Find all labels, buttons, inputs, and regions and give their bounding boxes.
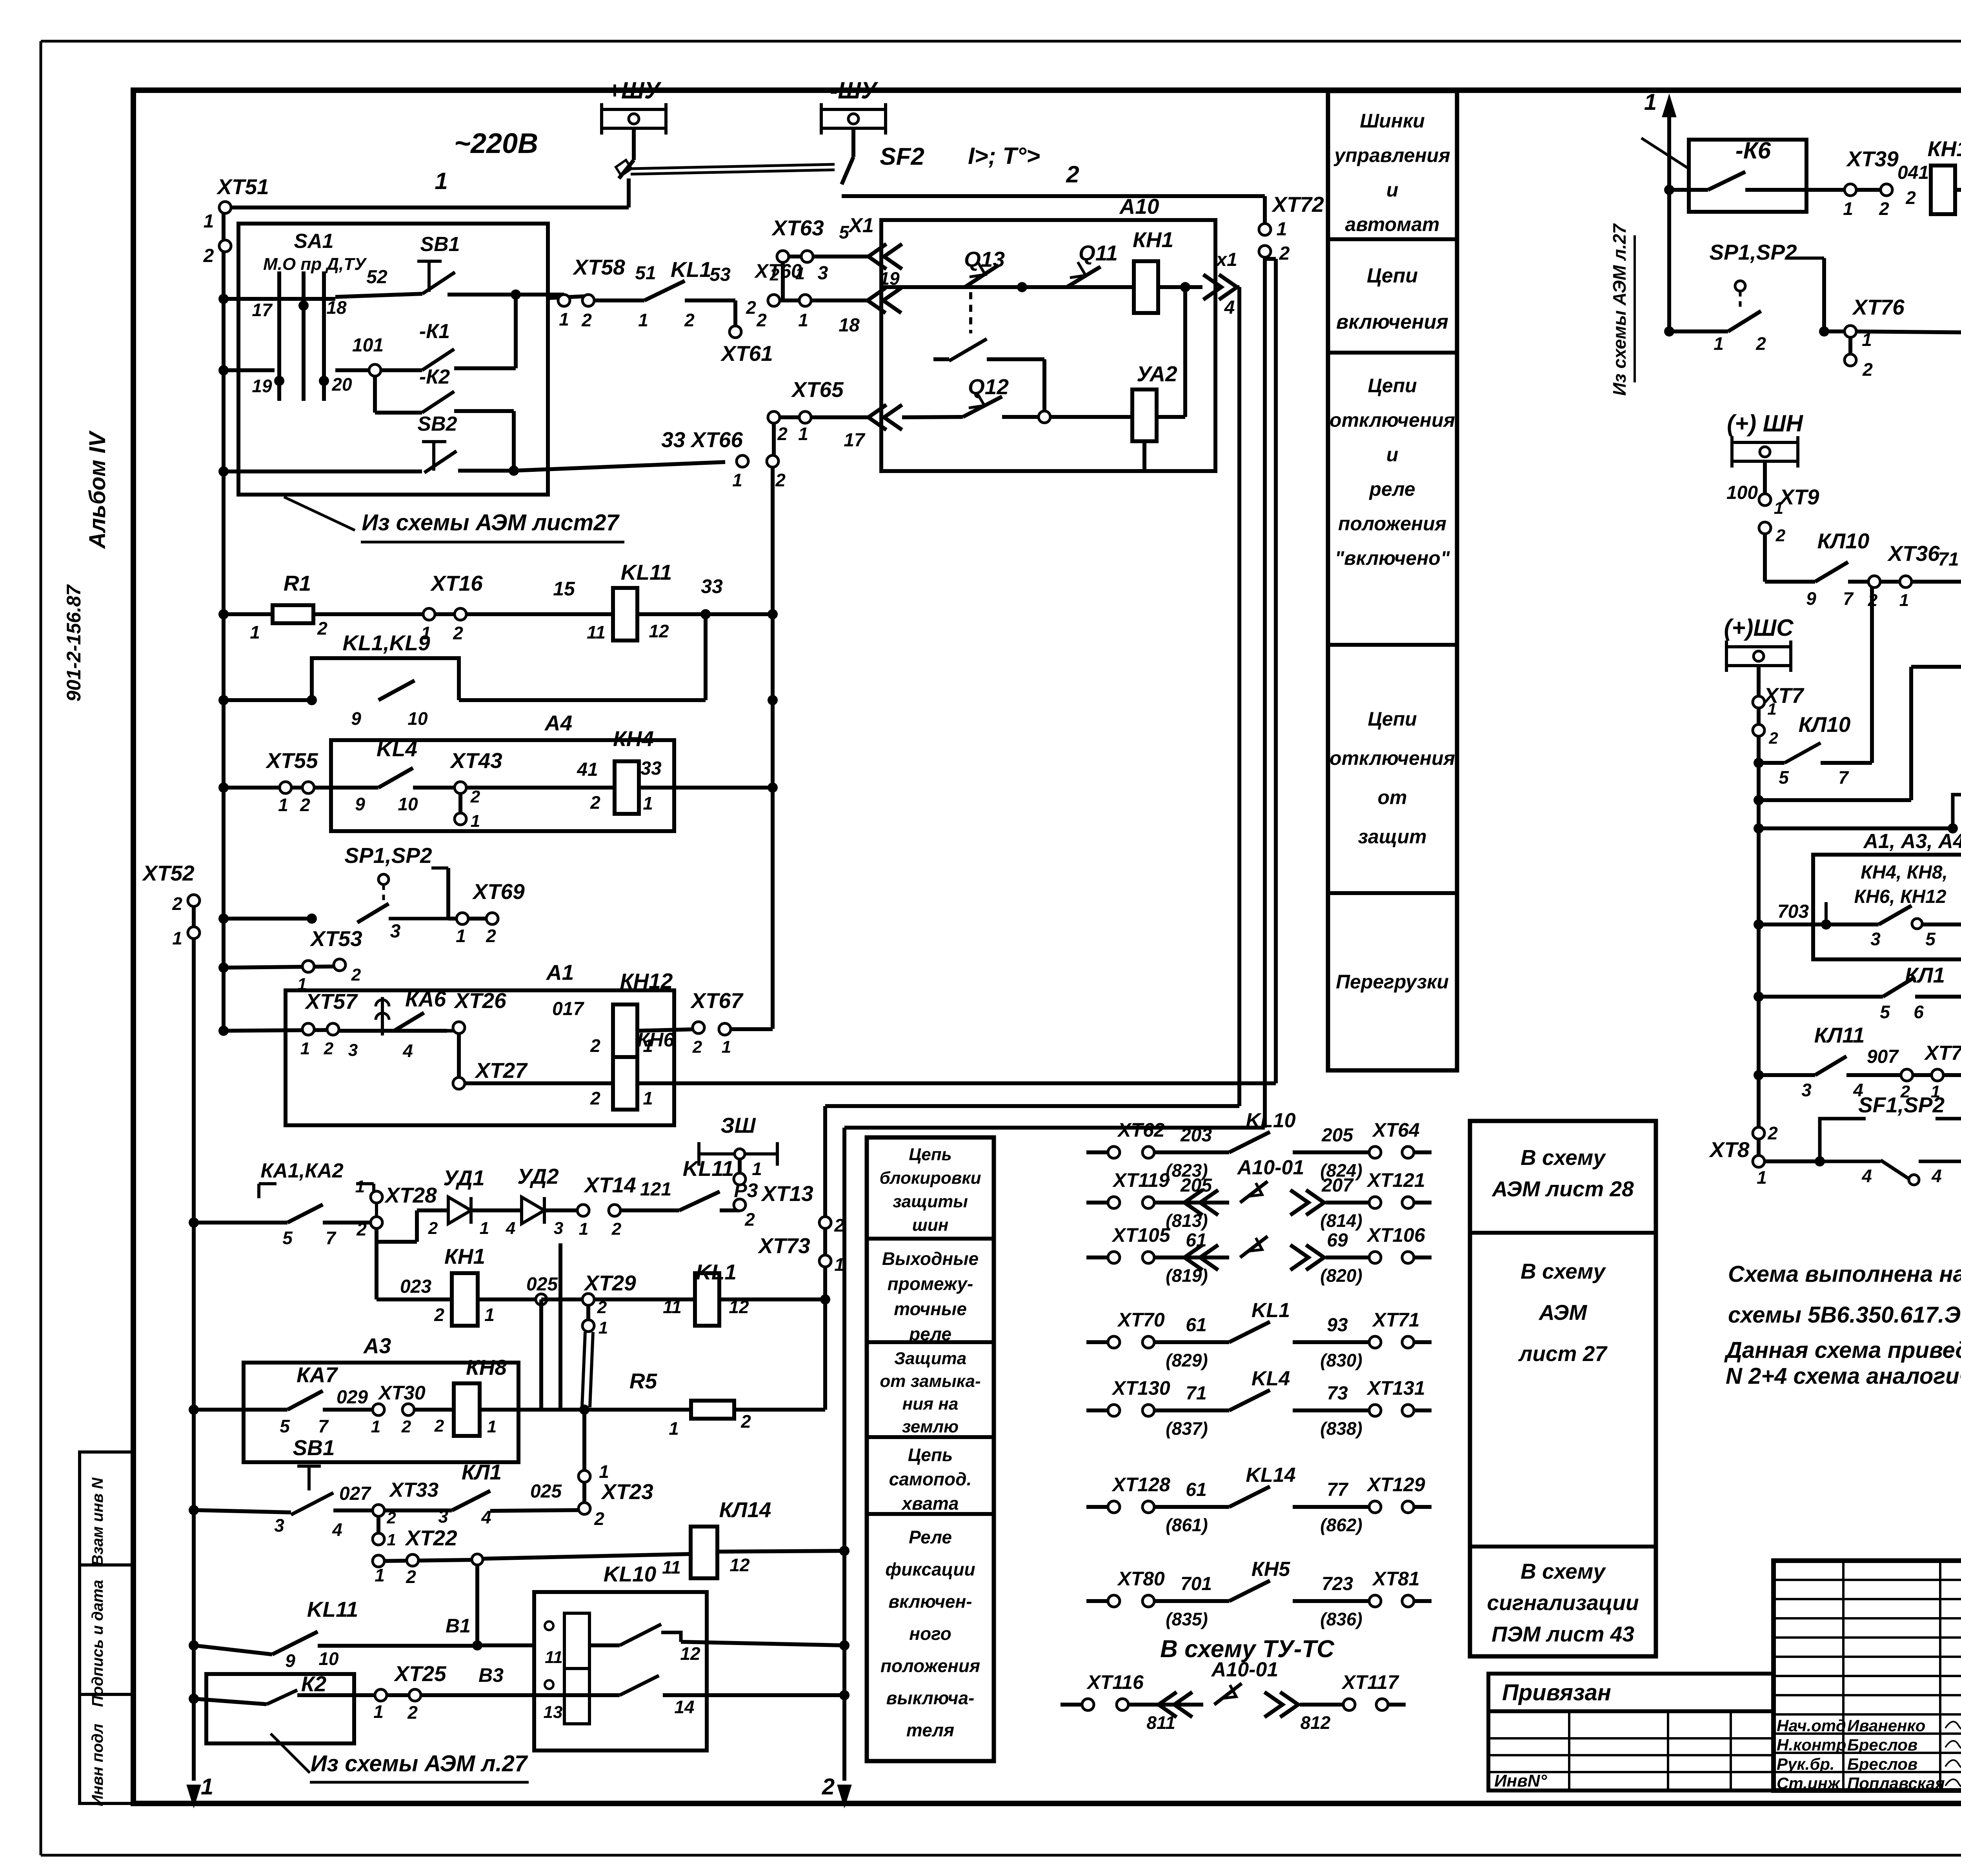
- svg-text:Нач.отд: Нач.отд: [1777, 1716, 1846, 1735]
- svg-text:025: 025: [530, 1481, 562, 1502]
- svg-text:+ШУ: +ШУ: [608, 77, 662, 104]
- svg-text:ХТ8: ХТ8: [1709, 1137, 1750, 1162]
- svg-text:ния на: ния на: [902, 1394, 959, 1414]
- svg-text:Ст.инж: Ст.инж: [1777, 1774, 1841, 1792]
- svg-text:1: 1: [471, 812, 480, 831]
- svg-text:схемы 5В6.350.617.Э3. исп. 0: схемы 5В6.350.617.Э3. исп. 036.: [1728, 1302, 1961, 1328]
- svg-text:КН4, КН8,: КН4, КН8,: [1861, 862, 1948, 883]
- svg-text:(829): (829): [1166, 1350, 1208, 1370]
- svg-text:(+)ШС: (+)ШС: [1724, 615, 1794, 641]
- svg-text:1: 1: [278, 795, 288, 815]
- svg-text:2: 2: [434, 1305, 444, 1325]
- svg-text:положения: положения: [880, 1656, 980, 1676]
- svg-text:12: 12: [649, 621, 669, 641]
- svg-text:ХТ25: ХТ25: [393, 1661, 447, 1686]
- svg-text:61: 61: [1186, 1315, 1206, 1336]
- svg-text:33 ХТ66: 33 ХТ66: [661, 428, 743, 452]
- svg-text:7: 7: [1838, 767, 1849, 788]
- svg-text:А3: А3: [363, 1334, 391, 1358]
- svg-text:2: 2: [407, 1702, 418, 1723]
- svg-text:-К2: -К2: [419, 366, 450, 388]
- svg-text:15: 15: [553, 578, 575, 600]
- svg-text:KL10: KL10: [1246, 1109, 1295, 1132]
- svg-text:2: 2: [1279, 243, 1290, 264]
- svg-text:4: 4: [481, 1507, 491, 1527]
- svg-text:2: 2: [775, 470, 786, 490]
- svg-text:ХТ72: ХТ72: [1271, 192, 1324, 217]
- svg-text:ХТ128: ХТ128: [1111, 1474, 1170, 1496]
- svg-text:отключения: отключения: [1330, 409, 1455, 431]
- svg-text:029: 029: [337, 1387, 368, 1408]
- svg-text:1: 1: [752, 1159, 762, 1179]
- svg-text:(838): (838): [1320, 1418, 1362, 1439]
- svg-text:KL11: KL11: [621, 560, 672, 584]
- svg-text:701: 701: [1181, 1574, 1212, 1594]
- svg-text:2: 2: [406, 1567, 416, 1587]
- svg-text:промежу-: промежу-: [888, 1274, 973, 1294]
- svg-text:ХТ129: ХТ129: [1366, 1474, 1425, 1496]
- svg-text:положения: положения: [1338, 513, 1446, 535]
- svg-text:5: 5: [1880, 1002, 1890, 1022]
- svg-text:блокировки: блокировки: [879, 1168, 981, 1188]
- svg-text:КН6: КН6: [637, 1029, 675, 1051]
- svg-text:ХТ61: ХТ61: [720, 341, 773, 366]
- svg-text:"включено": "включено": [1335, 547, 1450, 569]
- svg-text:1: 1: [598, 1318, 608, 1337]
- svg-text:KL14: KL14: [1246, 1464, 1295, 1487]
- svg-text:2: 2: [581, 310, 592, 330]
- svg-text:5: 5: [1779, 767, 1789, 788]
- svg-text:ного: ного: [909, 1623, 951, 1644]
- svg-text:КН12: КН12: [620, 969, 673, 993]
- svg-text:1: 1: [1757, 1167, 1767, 1188]
- svg-text:2: 2: [822, 1774, 835, 1800]
- svg-text:ХТ67: ХТ67: [690, 988, 744, 1013]
- svg-text:9: 9: [1806, 588, 1816, 609]
- svg-text:1: 1: [456, 926, 466, 946]
- svg-text:2: 2: [317, 618, 327, 639]
- svg-text:-ШУ: -ШУ: [830, 77, 879, 104]
- svg-text:N 2+4 схема аналогична.: N 2+4 схема аналогична.: [1726, 1363, 1961, 1389]
- svg-text:12: 12: [729, 1555, 750, 1575]
- svg-text:18: 18: [839, 315, 860, 336]
- svg-text:АЭМ лист 28: АЭМ лист 28: [1491, 1177, 1634, 1201]
- svg-text:от замыка-: от замыка-: [880, 1372, 980, 1391]
- svg-text:ПЭМ лист 43: ПЭМ лист 43: [1492, 1622, 1634, 1646]
- svg-text:Бреслов: Бреслов: [1847, 1755, 1917, 1773]
- svg-text:R5: R5: [629, 1369, 658, 1393]
- svg-text:УД2: УД2: [517, 1164, 559, 1188]
- svg-text:и: и: [1386, 444, 1399, 466]
- svg-text:ХТ36: ХТ36: [1887, 541, 1940, 566]
- svg-text:SF1,SP2: SF1,SP2: [1858, 1093, 1945, 1117]
- svg-text:К2: К2: [301, 1672, 327, 1696]
- svg-text:x1: x1: [1215, 249, 1237, 270]
- svg-text:71: 71: [1938, 549, 1959, 570]
- svg-text:Поплавская: Поплавская: [1847, 1774, 1945, 1792]
- svg-text:ХТ52: ХТ52: [142, 861, 195, 885]
- svg-text:реле: реле: [1368, 478, 1415, 500]
- svg-text:(861): (861): [1166, 1515, 1208, 1535]
- svg-text:самопод.: самопод.: [889, 1469, 972, 1489]
- svg-text:1: 1: [204, 211, 214, 232]
- svg-text:точные: точные: [894, 1299, 967, 1319]
- svg-text:2: 2: [453, 623, 463, 643]
- svg-text:SB1: SB1: [420, 233, 460, 256]
- svg-text:10: 10: [318, 1649, 339, 1669]
- svg-text:ХТ71: ХТ71: [1372, 1309, 1420, 1331]
- svg-text:ХТ13: ХТ13: [760, 1181, 813, 1206]
- svg-text:(837): (837): [1166, 1418, 1208, 1439]
- svg-text:11: 11: [587, 622, 606, 642]
- svg-text:2: 2: [777, 424, 788, 444]
- svg-text:723: 723: [1322, 1574, 1353, 1594]
- svg-text:1: 1: [732, 470, 742, 490]
- svg-text:КА1,КА2: КА1,КА2: [260, 1159, 343, 1182]
- svg-text:100: 100: [1726, 482, 1758, 503]
- svg-text:включен-: включен-: [888, 1591, 972, 1612]
- svg-text:19: 19: [252, 376, 272, 396]
- svg-text:20: 20: [331, 374, 352, 395]
- svg-text:В1: В1: [446, 1615, 471, 1637]
- svg-text:ХТ69: ХТ69: [472, 879, 525, 904]
- svg-text:1: 1: [795, 264, 805, 283]
- svg-text:Цепи: Цепи: [1367, 264, 1418, 287]
- svg-text:KL1: KL1: [1252, 1299, 1290, 1322]
- svg-text:УА2: УА2: [1137, 362, 1177, 386]
- svg-text:ЗШ: ЗШ: [720, 1113, 756, 1137]
- svg-text:Из схемы АЭМ л.27: Из схемы АЭМ л.27: [311, 1751, 528, 1776]
- svg-text:041: 041: [1897, 162, 1929, 183]
- svg-text:907: 907: [1867, 1046, 1899, 1067]
- svg-text:51: 51: [635, 263, 656, 284]
- svg-text:17: 17: [252, 300, 273, 320]
- svg-text:ХТ76: ХТ76: [1852, 295, 1905, 319]
- svg-text:ХТ27: ХТ27: [474, 1058, 528, 1083]
- svg-text:18: 18: [326, 297, 347, 318]
- svg-text:2: 2: [1066, 161, 1079, 187]
- svg-text:1: 1: [638, 310, 648, 330]
- svg-text:ХТ55: ХТ55: [265, 748, 318, 773]
- svg-text:025: 025: [526, 1274, 558, 1295]
- svg-text:КН5: КН5: [1252, 1558, 1291, 1581]
- svg-text:1: 1: [1714, 333, 1724, 354]
- svg-text:Цепи: Цепи: [1368, 375, 1417, 397]
- svg-text:101: 101: [352, 335, 384, 356]
- svg-text:ХТ29: ХТ29: [583, 1271, 636, 1295]
- svg-text:КН6, КН12: КН6, КН12: [1854, 886, 1946, 907]
- svg-text:2: 2: [740, 1411, 751, 1432]
- svg-text:В схему: В схему: [1521, 1559, 1606, 1583]
- svg-text:выключа-: выключа-: [886, 1688, 975, 1708]
- svg-text:1: 1: [579, 1219, 588, 1239]
- svg-text:7: 7: [1843, 588, 1854, 609]
- svg-text:33: 33: [640, 758, 662, 779]
- svg-text:Цепь: Цепь: [909, 1145, 952, 1164]
- svg-text:А1, А3, А4: А1, А3, А4: [1863, 830, 1961, 853]
- svg-text:Альбом IV: Альбом IV: [85, 430, 110, 550]
- svg-text:ИнвN°: ИнвN°: [1494, 1771, 1547, 1790]
- svg-text:901-2-156.87: 901-2-156.87: [63, 584, 85, 702]
- svg-text:А4: А4: [544, 711, 572, 735]
- svg-text:1: 1: [798, 310, 808, 330]
- svg-text:от: от: [1378, 786, 1407, 808]
- svg-text:КЛ1: КЛ1: [1905, 963, 1945, 987]
- svg-text:защит: защит: [1358, 826, 1426, 848]
- svg-text:SF2: SF2: [880, 143, 924, 170]
- svg-text:ХТ117: ХТ117: [1341, 1671, 1399, 1693]
- svg-text:2: 2: [401, 1417, 411, 1436]
- svg-text:1: 1: [599, 1461, 609, 1482]
- svg-text:Иваненко: Иваненко: [1847, 1716, 1925, 1735]
- svg-text:1: 1: [1899, 591, 1909, 610]
- svg-text:2: 2: [172, 893, 182, 914]
- svg-text:14: 14: [674, 1697, 694, 1717]
- svg-text:ХТ14: ХТ14: [583, 1173, 636, 1197]
- svg-text:10: 10: [407, 708, 428, 729]
- svg-text:ХТ51: ХТ51: [216, 175, 269, 199]
- svg-text:2: 2: [746, 297, 756, 318]
- svg-text:ХТ30: ХТ30: [377, 1382, 426, 1404]
- svg-text:Реле: Реле: [909, 1527, 952, 1547]
- svg-text:ХТ130: ХТ130: [1111, 1377, 1170, 1399]
- svg-text:1: 1: [1774, 499, 1783, 518]
- svg-text:4: 4: [332, 1519, 342, 1540]
- svg-text:КН8: КН8: [466, 1355, 507, 1379]
- svg-text:9: 9: [285, 1650, 295, 1671]
- svg-text:1: 1: [371, 1417, 380, 1436]
- svg-text:SB2: SB2: [417, 413, 457, 435]
- svg-text:землю: землю: [902, 1417, 959, 1436]
- svg-text:69: 69: [1327, 1230, 1348, 1251]
- svg-text:КЛ1: КЛ1: [462, 1460, 502, 1484]
- svg-text:I>; T°>: I>; T°>: [968, 143, 1040, 169]
- svg-text:ХТ106: ХТ106: [1366, 1224, 1426, 1246]
- svg-text:Привязан: Привязан: [1502, 1680, 1611, 1705]
- svg-text:ХТ81: ХТ81: [1372, 1568, 1420, 1590]
- svg-text:41: 41: [577, 759, 598, 780]
- svg-text:1: 1: [1767, 700, 1776, 718]
- svg-text:ХТ57: ХТ57: [304, 989, 358, 1014]
- svg-text:2: 2: [1755, 333, 1766, 354]
- svg-text:205: 205: [1321, 1125, 1353, 1146]
- svg-text:KL4: KL4: [377, 737, 417, 761]
- svg-text:71: 71: [1186, 1383, 1206, 1404]
- svg-text:ХТ79: ХТ79: [1924, 1042, 1961, 1064]
- svg-text:027: 027: [339, 1483, 371, 1504]
- svg-text:ХТ116: ХТ116: [1086, 1671, 1144, 1693]
- svg-text:207: 207: [1321, 1175, 1354, 1196]
- svg-text:хвата: хвата: [901, 1493, 959, 1514]
- svg-text:Н.контр: Н.контр: [1777, 1736, 1846, 1754]
- svg-text:2: 2: [1879, 198, 1889, 219]
- svg-text:73: 73: [1327, 1383, 1348, 1404]
- svg-text:017: 017: [552, 999, 584, 1019]
- svg-text:Шинки: Шинки: [1360, 110, 1425, 132]
- svg-text:53: 53: [709, 264, 731, 285]
- svg-text:2: 2: [594, 1508, 604, 1529]
- svg-text:В3: В3: [478, 1664, 504, 1686]
- svg-text:812: 812: [1301, 1712, 1331, 1733]
- svg-text:А1: А1: [546, 960, 574, 984]
- svg-text:Из схемы АЭМ лист27: Из схемы АЭМ лист27: [362, 510, 620, 535]
- svg-text:ХТ64: ХТ64: [1372, 1119, 1420, 1141]
- svg-text:5: 5: [282, 1228, 293, 1248]
- svg-text:(814): (814): [1320, 1210, 1362, 1231]
- svg-text:2: 2: [684, 310, 695, 330]
- svg-text:2: 2: [470, 787, 480, 806]
- svg-text:9: 9: [355, 794, 365, 814]
- svg-text:ХТ63: ХТ63: [771, 216, 824, 240]
- svg-text:Схема выполнена на основании з: Схема выполнена на основании заводской п…: [1728, 1261, 1961, 1287]
- svg-text:1: 1: [669, 1418, 679, 1439]
- svg-text:2: 2: [744, 1209, 755, 1230]
- svg-text:(835): (835): [1166, 1609, 1208, 1629]
- svg-text:11: 11: [662, 1557, 681, 1578]
- svg-text:ХТ26: ХТ26: [453, 988, 506, 1013]
- svg-text:77: 77: [1327, 1479, 1349, 1500]
- svg-text:Данная схема приведена для дви: Данная схема приведена для двигателя N 1…: [1724, 1337, 1961, 1363]
- svg-text:R1: R1: [284, 571, 311, 595]
- svg-text:ХТ22: ХТ22: [404, 1526, 457, 1550]
- svg-text:2: 2: [590, 1088, 600, 1108]
- svg-text:1: 1: [172, 928, 182, 948]
- svg-text:КЛ10: КЛ10: [1799, 712, 1851, 737]
- svg-text:2: 2: [590, 792, 600, 813]
- svg-text:ХТ53: ХТ53: [309, 926, 362, 951]
- svg-text:5: 5: [1925, 929, 1936, 949]
- svg-text:3: 3: [348, 1041, 358, 1060]
- svg-text:4: 4: [1224, 297, 1235, 318]
- svg-text:11: 11: [545, 1648, 563, 1667]
- svg-text:2: 2: [351, 965, 361, 984]
- svg-text:33: 33: [701, 575, 723, 597]
- svg-text:13: 13: [544, 1703, 563, 1722]
- svg-text:В схему: В схему: [1521, 1259, 1606, 1283]
- svg-text:ХТ28: ХТ28: [384, 1183, 437, 1207]
- svg-text:1: 1: [487, 1417, 497, 1436]
- svg-text:KL10: KL10: [604, 1562, 657, 1586]
- svg-text:А10-01: А10-01: [1237, 1156, 1304, 1179]
- svg-text:1: 1: [480, 1219, 489, 1238]
- svg-text:Бреслов: Бреслов: [1847, 1736, 1917, 1754]
- svg-text:А10: А10: [1119, 194, 1159, 218]
- svg-text:2: 2: [300, 795, 310, 815]
- svg-text:Х1: Х1: [848, 214, 874, 237]
- svg-text:лист 27: лист 27: [1518, 1341, 1608, 1366]
- svg-text:2: 2: [769, 265, 780, 284]
- svg-text:1: 1: [484, 1305, 495, 1325]
- svg-text:KL1: KL1: [671, 257, 711, 282]
- svg-text:11: 11: [663, 1297, 682, 1317]
- svg-text:КН14: КН14: [1928, 136, 1961, 161]
- svg-text:ХТ62: ХТ62: [1117, 1119, 1165, 1141]
- svg-text:включения: включения: [1336, 311, 1448, 333]
- svg-text:2: 2: [834, 1215, 844, 1236]
- svg-text:УД1: УД1: [443, 1166, 484, 1190]
- svg-text:1: 1: [250, 622, 260, 642]
- svg-text:203: 203: [1180, 1125, 1212, 1146]
- svg-text:КН1: КН1: [444, 1244, 485, 1268]
- svg-text:KL4: KL4: [1252, 1367, 1290, 1390]
- svg-text:Инвн подл: Инвн подл: [89, 1723, 106, 1806]
- svg-text:сигнализации: сигнализации: [1487, 1590, 1639, 1615]
- svg-text:SA1: SA1: [294, 230, 333, 253]
- svg-text:управления: управления: [1333, 144, 1450, 166]
- svg-text:93: 93: [1327, 1315, 1348, 1336]
- svg-text:10: 10: [398, 794, 418, 814]
- svg-text:(820): (820): [1320, 1265, 1362, 1286]
- svg-text:Перегрузки: Перегрузки: [1336, 971, 1449, 993]
- svg-text:ХТ80: ХТ80: [1117, 1568, 1165, 1590]
- svg-text:2: 2: [692, 1037, 702, 1057]
- svg-text:3: 3: [1870, 929, 1881, 949]
- svg-text:защиты: защиты: [893, 1192, 968, 1211]
- svg-text:2: 2: [486, 926, 496, 946]
- svg-text:1: 1: [1277, 219, 1287, 240]
- svg-text:1: 1: [643, 793, 653, 813]
- svg-text:Из схемы АЭМ л.27: Из схемы АЭМ л.27: [1609, 223, 1630, 396]
- svg-text:отключения: отключения: [1330, 747, 1455, 769]
- svg-text:КЛ14: КЛ14: [719, 1498, 771, 1522]
- svg-text:КЛ11: КЛ11: [1814, 1023, 1865, 1047]
- svg-text:4: 4: [1861, 1166, 1872, 1186]
- svg-text:SP1,SP2: SP1,SP2: [344, 843, 432, 868]
- svg-text:1: 1: [798, 424, 808, 444]
- svg-text:5: 5: [839, 222, 850, 242]
- svg-text:ХТ131: ХТ131: [1366, 1377, 1425, 1399]
- svg-text:KL11: KL11: [683, 1156, 734, 1181]
- svg-text:КН4: КН4: [613, 726, 654, 751]
- svg-text:7: 7: [326, 1228, 337, 1248]
- svg-text:(836): (836): [1320, 1609, 1362, 1629]
- svg-text:1: 1: [722, 1037, 731, 1057]
- svg-text:2: 2: [428, 1219, 438, 1238]
- svg-text:Подпись и дата: Подпись и дата: [89, 1580, 106, 1707]
- svg-text:~220В: ~220В: [454, 128, 538, 159]
- svg-text:(862): (862): [1320, 1515, 1362, 1535]
- svg-text:Взам инв N: Взам инв N: [89, 1477, 106, 1566]
- svg-text:3: 3: [818, 263, 828, 284]
- svg-text:Рук.бр.: Рук.бр.: [1777, 1755, 1835, 1773]
- svg-text:52: 52: [366, 267, 387, 287]
- svg-text:ХТ16: ХТ16: [430, 571, 483, 595]
- svg-text:1: 1: [201, 1774, 213, 1800]
- svg-text:ХТ43: ХТ43: [449, 748, 502, 773]
- svg-text:2: 2: [434, 1416, 444, 1436]
- svg-text:2: 2: [756, 310, 767, 330]
- svg-text:КА7: КА7: [297, 1363, 338, 1387]
- svg-text:1: 1: [435, 168, 448, 194]
- svg-text:-К1: -К1: [419, 320, 450, 343]
- svg-text:Цепь: Цепь: [908, 1445, 953, 1465]
- svg-text:ХТ65: ХТ65: [791, 377, 844, 402]
- svg-text:4: 4: [1931, 1166, 1942, 1186]
- svg-text:2: 2: [1775, 526, 1786, 545]
- svg-text:АЭМ: АЭМ: [1538, 1300, 1588, 1325]
- svg-text:3: 3: [554, 1219, 563, 1238]
- svg-text:ХТ9: ХТ9: [1779, 485, 1819, 509]
- svg-text:2: 2: [1905, 187, 1916, 208]
- svg-text:61: 61: [1186, 1479, 1206, 1500]
- svg-text:4: 4: [506, 1219, 515, 1238]
- svg-text:(830): (830): [1320, 1350, 1362, 1370]
- svg-text:1: 1: [387, 1530, 396, 1549]
- svg-text:М.О пр Д,ТУ: М.О пр Д,ТУ: [263, 255, 367, 274]
- svg-text:1: 1: [300, 1039, 310, 1058]
- svg-text:SB1: SB1: [293, 1436, 335, 1460]
- svg-text:17: 17: [844, 430, 866, 451]
